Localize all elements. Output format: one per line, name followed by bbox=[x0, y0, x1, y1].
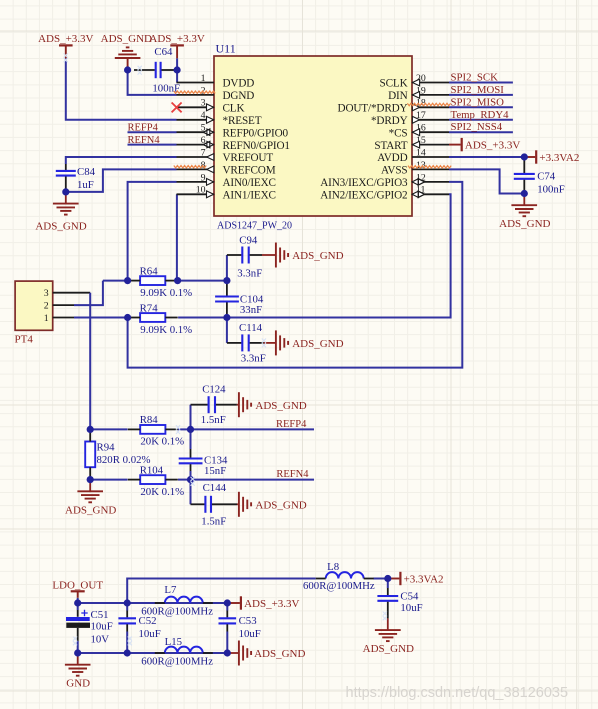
svg-text:10V: 10V bbox=[91, 634, 110, 646]
svg-text:PT4: PT4 bbox=[15, 333, 34, 345]
svg-text:R104: R104 bbox=[140, 464, 164, 476]
svg-text:L8: L8 bbox=[327, 561, 339, 573]
svg-text:ADS_+3.3V: ADS_+3.3V bbox=[149, 33, 204, 45]
svg-text:R74: R74 bbox=[140, 302, 159, 314]
svg-text:15nF: 15nF bbox=[204, 465, 226, 477]
svg-text:ADS_GND: ADS_GND bbox=[65, 504, 116, 516]
svg-text:C53: C53 bbox=[239, 615, 257, 627]
svg-text:DVDD: DVDD bbox=[223, 78, 255, 90]
svg-text:10uF: 10uF bbox=[400, 602, 422, 614]
svg-text:+3.3VA2: +3.3VA2 bbox=[404, 573, 444, 585]
svg-text:820R 0.02%: 820R 0.02% bbox=[97, 454, 151, 466]
svg-text:ADS_GND: ADS_GND bbox=[101, 33, 152, 45]
svg-text:13: 13 bbox=[416, 160, 426, 171]
svg-text:100nF: 100nF bbox=[537, 184, 565, 196]
svg-text:R64: R64 bbox=[140, 265, 159, 277]
svg-text:DGND: DGND bbox=[223, 90, 255, 102]
svg-text:20K 0.1%: 20K 0.1% bbox=[140, 486, 184, 498]
svg-text:ADS1247_PW_20: ADS1247_PW_20 bbox=[217, 221, 292, 232]
svg-text:*DRDY: *DRDY bbox=[371, 115, 408, 127]
svg-text:START: START bbox=[374, 140, 407, 152]
svg-text:1.5nF: 1.5nF bbox=[201, 516, 226, 528]
svg-text:9: 9 bbox=[201, 172, 206, 183]
svg-text:3: 3 bbox=[201, 98, 206, 109]
svg-text:L7: L7 bbox=[164, 584, 177, 596]
svg-text:ADS_+3.3V: ADS_+3.3V bbox=[465, 140, 520, 152]
svg-text:*RESET: *RESET bbox=[223, 115, 262, 127]
svg-text:AVSS: AVSS bbox=[381, 165, 408, 177]
svg-text:C124: C124 bbox=[202, 384, 226, 396]
svg-text:10uF: 10uF bbox=[91, 621, 113, 633]
svg-text:C94: C94 bbox=[239, 234, 258, 246]
svg-text:1.5nF: 1.5nF bbox=[201, 414, 226, 426]
svg-text:10: 10 bbox=[196, 185, 206, 196]
svg-text:ADS_GND: ADS_GND bbox=[363, 643, 414, 655]
svg-text:C114: C114 bbox=[239, 322, 263, 334]
svg-text:C74: C74 bbox=[537, 171, 556, 183]
svg-text:1uF: 1uF bbox=[77, 179, 94, 191]
svg-text:9.09K 0.1%: 9.09K 0.1% bbox=[140, 287, 192, 299]
svg-text:SPI2_MISO: SPI2_MISO bbox=[451, 96, 505, 108]
svg-text:600R@100MHz: 600R@100MHz bbox=[141, 655, 213, 667]
svg-text:CLK: CLK bbox=[223, 103, 245, 115]
svg-text:600R@100MHz: 600R@100MHz bbox=[303, 580, 375, 592]
svg-text:10uF: 10uF bbox=[139, 628, 161, 640]
svg-text:C54: C54 bbox=[400, 591, 419, 603]
svg-text:C51: C51 bbox=[91, 609, 109, 621]
svg-text:ADS_GND: ADS_GND bbox=[35, 220, 86, 232]
svg-text:C84: C84 bbox=[77, 166, 96, 178]
svg-text:9.09K 0.1%: 9.09K 0.1% bbox=[140, 324, 192, 336]
svg-text:C144: C144 bbox=[203, 482, 227, 494]
svg-text:2: 2 bbox=[44, 301, 49, 312]
svg-text:ADS_+3.3V: ADS_+3.3V bbox=[244, 598, 299, 610]
svg-text:600R@100MHz: 600R@100MHz bbox=[141, 606, 213, 618]
svg-text:1: 1 bbox=[201, 73, 206, 84]
svg-text:SPI2_NSS4: SPI2_NSS4 bbox=[451, 121, 503, 133]
svg-text:7: 7 bbox=[201, 147, 206, 158]
svg-text:ADS_GND: ADS_GND bbox=[292, 250, 343, 262]
svg-text:REFN0/GPIO1: REFN0/GPIO1 bbox=[223, 140, 290, 152]
svg-text:AIN2/IEXC/GPIO2: AIN2/IEXC/GPIO2 bbox=[320, 190, 407, 202]
svg-text:https://blog.csdn.net/qq_38126: https://blog.csdn.net/qq_38126035 bbox=[346, 685, 569, 701]
svg-text:DIN: DIN bbox=[388, 90, 408, 102]
svg-text:REFP4: REFP4 bbox=[128, 123, 159, 134]
svg-text:U11: U11 bbox=[216, 42, 236, 56]
svg-text:VREFCOM: VREFCOM bbox=[223, 165, 276, 177]
svg-text:ADS_GND: ADS_GND bbox=[499, 218, 550, 230]
svg-text:3.3nF: 3.3nF bbox=[241, 353, 266, 365]
svg-text:C64: C64 bbox=[154, 46, 173, 58]
svg-text:ADS_GND: ADS_GND bbox=[255, 400, 306, 412]
svg-text:L15: L15 bbox=[165, 636, 182, 648]
svg-text:DOUT/*DRDY: DOUT/*DRDY bbox=[338, 103, 408, 115]
svg-text:33nF: 33nF bbox=[240, 304, 262, 316]
svg-text:10uF: 10uF bbox=[239, 628, 261, 640]
svg-text:ADS_GND: ADS_GND bbox=[255, 500, 306, 512]
svg-text:4: 4 bbox=[201, 110, 206, 121]
svg-text:SCLK: SCLK bbox=[380, 78, 408, 90]
svg-text:R94: R94 bbox=[97, 442, 116, 454]
svg-text:*CS: *CS bbox=[389, 127, 408, 139]
svg-text:ADS_+3.3V: ADS_+3.3V bbox=[38, 33, 93, 45]
svg-text:1: 1 bbox=[44, 313, 49, 324]
svg-text:AIN1/IEXC: AIN1/IEXC bbox=[223, 190, 276, 202]
svg-text:ADS_GND: ADS_GND bbox=[254, 648, 305, 660]
svg-text:REFN4: REFN4 bbox=[128, 135, 161, 146]
svg-text:Temp_RDY4: Temp_RDY4 bbox=[451, 109, 510, 121]
svg-text:REFN4: REFN4 bbox=[276, 469, 309, 480]
svg-text:AIN0/IEXC: AIN0/IEXC bbox=[223, 177, 276, 189]
svg-text:3.3nF: 3.3nF bbox=[237, 268, 262, 280]
svg-text:REFP4: REFP4 bbox=[276, 419, 307, 430]
svg-text:14: 14 bbox=[416, 147, 426, 158]
svg-text:AIN3/IEXC/GPIO3: AIN3/IEXC/GPIO3 bbox=[320, 177, 408, 189]
svg-text:+3.3VA2: +3.3VA2 bbox=[539, 152, 579, 164]
svg-text:VREFOUT: VREFOUT bbox=[223, 152, 274, 164]
svg-text:REFP0/GPIO0: REFP0/GPIO0 bbox=[223, 127, 289, 139]
svg-text:SPI2_MOSI: SPI2_MOSI bbox=[451, 84, 505, 96]
svg-text:3: 3 bbox=[44, 288, 49, 299]
svg-text:R84: R84 bbox=[140, 414, 159, 426]
svg-text:SPI2_SCK: SPI2_SCK bbox=[451, 72, 499, 84]
svg-text:ADS_GND: ADS_GND bbox=[292, 338, 343, 350]
svg-text:AVDD: AVDD bbox=[377, 152, 407, 164]
svg-text:LDO_OUT: LDO_OUT bbox=[52, 579, 103, 591]
svg-text:GND: GND bbox=[66, 678, 90, 690]
svg-text:20K 0.1%: 20K 0.1% bbox=[140, 436, 184, 448]
